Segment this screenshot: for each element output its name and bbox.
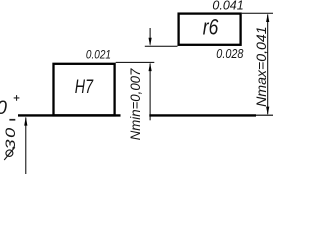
svg-text:Nmin=0,007: Nmin=0,007	[128, 67, 143, 140]
svg-text:30: 30	[3, 126, 19, 149]
svg-text:0.021: 0.021	[86, 49, 111, 62]
svg-text:H7: H7	[75, 77, 94, 98]
svg-text:0: 0	[0, 98, 7, 119]
svg-text:0.041: 0.041	[212, 0, 243, 13]
svg-text:0.028: 0.028	[216, 46, 244, 61]
svg-text:r6: r6	[203, 15, 219, 40]
svg-text:Nmax=0,041: Nmax=0,041	[254, 26, 269, 107]
